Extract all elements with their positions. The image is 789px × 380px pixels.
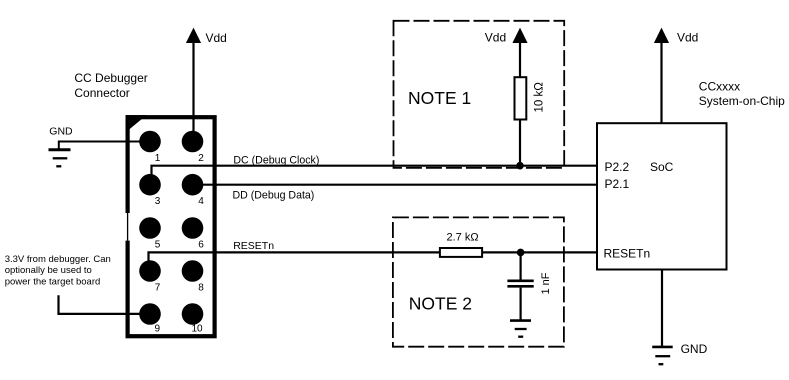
svg-text:CCxxxx: CCxxxx [699,79,740,93]
wire: R1 to DC node [519,120,521,166]
wire: Vdd to resistor R1 [519,43,521,77]
svg-text:5: 5 [155,239,161,250]
svg-text:Connector: Connector [74,86,129,100]
pin 8 [182,260,204,282]
connector pin-1 chamfer [126,115,147,132]
svg-text:10 kΩ: 10 kΩ [534,82,546,113]
svg-text:GND: GND [49,125,73,137]
svg-text:RESETn: RESETn [233,240,274,252]
svg-text:power the target board: power the target board [5,276,101,287]
power symbol Vdd (SoC) arrow [654,28,669,43]
svg-text:SoC: SoC [650,160,674,174]
svg-text:RESETn: RESETn [604,247,651,261]
wire: pin 2 to Vdd arrow [192,43,194,142]
wire: SoC to ground [661,270,663,347]
pin 4 [182,174,204,196]
power symbol Vdd (connector) arrow [186,28,201,43]
wire: pin 7 to RESETn line to SoC [149,252,598,271]
svg-text:3: 3 [155,196,161,207]
pin 10 [182,303,204,325]
svg-text:9: 9 [155,324,161,335]
pin 9 [139,303,161,325]
svg-text:P2.2: P2.2 [605,160,630,174]
svg-text:P2.1: P2.1 [605,177,630,191]
svg-text:NOTE 2: NOTE 2 [409,293,472,313]
ground (C1) [510,319,531,322]
svg-text:CC Debugger: CC Debugger [74,71,147,85]
capacitor C1 plate 1 [507,279,533,282]
svg-text:NOTE 1: NOTE 1 [408,88,471,108]
capacitor C1 plate 2 [507,285,533,288]
wire: DD pin 4 to SoC P2.1 [193,184,598,186]
svg-text:1 nF: 1 nF [540,272,552,294]
wire: pin 3 to DC line to SoC P2.2 [152,166,598,185]
svg-text:2.7 kΩ: 2.7 kΩ [447,232,479,244]
svg-text:optionally be used to: optionally be used to [5,265,92,276]
connector keying notch [125,213,130,241]
power symbol Vdd (NOTE 1) arrow [512,28,527,43]
junction: R2 / C1 node [517,249,525,257]
pin 5 [139,217,161,239]
ground (SoC) [652,346,673,349]
svg-text:System-on-Chip: System-on-Chip [699,94,785,108]
wire: node to capacitor C1 [519,252,521,279]
svg-text:6: 6 [198,239,204,250]
svg-text:7: 7 [155,283,161,294]
svg-text:GND: GND [681,342,708,356]
svg-text:1: 1 [155,153,161,164]
svg-text:2: 2 [198,153,204,164]
resistor R2 2.7 kOhm [440,248,482,257]
note box NOTE 2 [393,217,564,346]
SoC box U1 [597,123,727,269]
resistor R1 10 kOhm [515,77,527,119]
wire: Vdd to SoC top [660,43,662,124]
note box NOTE 1 [394,21,565,168]
pin 7 [139,260,161,282]
svg-text:3.3V from debugger. Can: 3.3V from debugger. Can [5,254,111,265]
svg-text:DD (Debug Data): DD (Debug Data) [233,189,315,201]
svg-text:10: 10 [192,324,204,335]
wire: C1 to ground [519,288,521,320]
svg-text:Vdd: Vdd [677,31,698,45]
pin 2 [182,131,204,153]
wire: 3.3V note leader to pin 9 [59,295,151,314]
connector outline (CC debugger header) [128,117,215,336]
pin 6 [182,217,204,239]
svg-text:Vdd: Vdd [206,31,227,45]
svg-text:4: 4 [198,196,204,207]
pin 1 [139,131,161,153]
junction: R1 / DC node [516,162,524,170]
wire: GND to pin 1 [59,141,150,143]
svg-text:Vdd: Vdd [485,31,506,45]
svg-text:8: 8 [198,283,204,294]
ground (left GND) [49,148,71,151]
pin 3 [139,174,161,196]
